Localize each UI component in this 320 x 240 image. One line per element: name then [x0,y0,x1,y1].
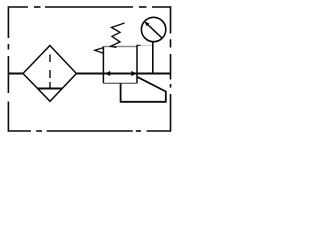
pressure gauge G1 circle [141,17,165,41]
regulator R1 box left edge [102,47,104,84]
main flow line left segment (border to filter inlet) [8,73,23,75]
filter F1 diamond body [23,46,76,102]
regulator R1 box right edge [136,45,138,83]
regulator R1 box top edge [103,46,137,48]
pressure gauge needle arrowhead [144,21,150,26]
pressure gauge needle [146,23,162,38]
filter water separator chord (drain triangle base) [38,88,63,90]
gauge connection line dark stub at box corner [136,44,140,46]
enclosure border right (dash-dot) [170,6,172,131]
enclosure border top (dash-dot) [8,6,171,8]
enclosure border left (dash-dot) [7,6,9,131]
main flow line right segment (filter outlet through regulator to border) [76,73,170,75]
regulator spring (zigzag above box) [111,23,125,47]
regulator relief vent arrow (open triangle at top-left) [95,48,104,54]
enclosure border bottom (dash-dot) [8,130,170,132]
regulator R1 box bottom edge [103,82,137,84]
gauge connection line faint continuation to stem [141,44,153,46]
regulator pilot feedback line (diagonal, right drop, bottom run, rise to box) [121,77,166,102]
gauge stem [152,42,154,74]
regulator flow arrow left (tip at inlet) [105,71,110,76]
filter center dashed line [49,55,51,89]
regulator flow arrow right (tip at outlet) [131,71,136,76]
